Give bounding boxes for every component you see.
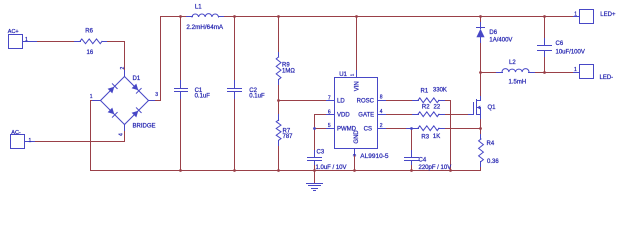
svg-text:7: 7 [328,95,331,101]
svg-text:8: 8 [380,95,383,101]
svg-text:AC-: AC- [11,130,21,136]
svg-text:1: 1 [29,138,32,144]
svg-text:10uF/100V: 10uF/100V [556,50,585,56]
svg-text:5: 5 [328,123,331,129]
svg-text:1.5mH: 1.5mH [509,80,527,86]
svg-text:2: 2 [380,123,383,129]
svg-text:LED-: LED- [600,75,614,81]
svg-text:1A/400V: 1A/400V [489,38,512,44]
svg-text:C4: C4 [419,158,427,164]
svg-text:BRIDGE: BRIDGE [133,123,156,129]
svg-text:ROSC: ROSC [357,99,375,105]
svg-text:R2: R2 [422,105,430,111]
svg-text:1MΩ: 1MΩ [282,68,295,74]
svg-text:1: 1 [25,37,28,43]
svg-text:1K: 1K [433,134,440,140]
svg-text:U1: U1 [339,72,347,78]
svg-text:R6: R6 [85,29,93,35]
svg-text:Q1: Q1 [488,105,497,111]
svg-text:1: 1 [574,11,577,17]
svg-text:16: 16 [87,50,94,56]
svg-text:0.1uF: 0.1uF [249,93,265,99]
svg-text:220pF / 10V: 220pF / 10V [419,165,452,171]
svg-text:6: 6 [328,110,331,116]
svg-text:22: 22 [434,105,441,111]
svg-text:D6: D6 [489,30,497,36]
svg-text:VDD: VDD [337,113,350,119]
svg-text:R4: R4 [487,141,495,147]
svg-text:4: 4 [119,133,125,136]
svg-text:C3: C3 [317,150,325,156]
svg-text:AC+: AC+ [8,29,19,35]
svg-text:0.36: 0.36 [487,159,499,165]
svg-text:4: 4 [380,109,383,115]
svg-text:AL9910-5: AL9910-5 [360,153,389,160]
svg-text:L2: L2 [509,60,516,66]
svg-text:R1: R1 [421,88,429,94]
svg-text:3: 3 [155,92,158,98]
svg-text:1: 1 [574,67,577,73]
svg-text:1: 1 [90,94,93,100]
svg-text:0.1uF: 0.1uF [195,94,211,100]
svg-text:C6: C6 [556,41,564,47]
svg-text:D1: D1 [133,76,141,82]
svg-text:1.0uF / 10V: 1.0uF / 10V [316,165,347,171]
svg-text:GND: GND [354,130,360,144]
svg-text:CS: CS [364,126,372,132]
svg-text:GATE: GATE [358,113,374,119]
svg-text:R3: R3 [421,134,429,140]
svg-text:787: 787 [283,134,294,140]
svg-text:2.2mH/64mA: 2.2mH/64mA [186,24,224,31]
svg-text:VIN: VIN [354,81,360,91]
svg-text:L1: L1 [195,5,202,11]
svg-text:330K: 330K [433,88,447,94]
svg-text:LD: LD [337,99,345,105]
svg-text:2: 2 [120,67,126,70]
svg-text:LED+: LED+ [600,12,616,18]
